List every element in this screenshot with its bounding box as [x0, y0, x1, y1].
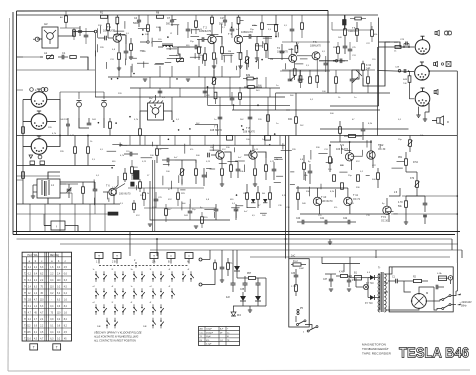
wire bottom mid	[209, 250, 211, 260]
svg-text:MAGNETOFON: MAGNETOFON	[362, 343, 386, 347]
switch contact row1 col4	[122, 274, 124, 276]
ground osc	[31, 195, 35, 197]
upper right box parts	[335, 77, 338, 84]
wire L to T7	[195, 125, 218, 136]
motor M1	[412, 294, 427, 309]
resistor R17	[265, 44, 268, 51]
svg-text:4/2: 4/2	[44, 22, 48, 26]
svg-text:R57: R57	[247, 273, 252, 275]
socket J2 DIN connector	[31, 114, 47, 130]
resistor R1 top left	[101, 15, 108, 18]
wire T2 out	[216, 37, 222, 45]
record box extra parts	[337, 47, 340, 54]
key stem K5	[188, 259, 190, 264]
ground T1e	[117, 67, 121, 69]
resistor R1c	[73, 30, 76, 37]
wire drop x157	[156, 239, 158, 256]
switch contact row1 col3	[114, 274, 116, 276]
resistor R41 top	[295, 117, 298, 124]
wire right bus to switch	[457, 263, 459, 291]
jack plug JP2	[102, 102, 107, 107]
wire fuse	[350, 277, 355, 279]
wire out stage top	[330, 141, 371, 143]
electrolytic C35	[243, 282, 248, 284]
capacitor C33	[294, 274, 299, 276]
wire speaker branch	[425, 103, 429, 112]
junction c2	[428, 70, 430, 72]
svg-text:1M: 1M	[228, 51, 231, 53]
switch contact row1 col2	[103, 274, 105, 276]
wire row y42 right	[282, 41, 330, 43]
capacitor C44	[423, 202, 428, 204]
fuse F2 box	[439, 276, 447, 281]
mains arrows	[457, 294, 461, 296]
T11 wires	[347, 188, 349, 197]
wire rect left drop	[232, 262, 234, 278]
resistor R3	[107, 24, 110, 31]
voltage table header split	[22, 256, 71, 258]
wire rect right	[265, 278, 267, 306]
resistor R53b	[405, 201, 408, 208]
P5 contact	[297, 309, 299, 311]
capacitor C29m dark	[131, 182, 135, 186]
wire P2 out	[305, 325, 312, 329]
resistor R46 out	[303, 163, 306, 170]
resistor R31	[230, 165, 233, 172]
node circle bottom	[199, 258, 202, 261]
resistor R51	[405, 159, 408, 166]
T2 emitter	[213, 43, 215, 52]
svg-text:K 40: K 40	[339, 272, 344, 274]
resistor R44	[339, 127, 342, 134]
transistor T9	[345, 153, 353, 161]
section divider double line right	[288, 136, 290, 259]
wire motor top	[419, 287, 434, 293]
bias trap symbol	[356, 70, 362, 76]
electrolytic C34	[231, 282, 236, 284]
switch contact row2 col7	[152, 291, 154, 293]
capacitor C2c	[84, 34, 89, 36]
svg-text:2xC: 2xC	[291, 255, 296, 258]
icon D right	[40, 161, 45, 165]
wire L4	[158, 46, 163, 48]
TY3 wires	[386, 198, 388, 206]
junction dot	[73, 31, 75, 33]
wire mid long vertical pair	[152, 160, 154, 232]
wire sockets right J1	[47, 100, 60, 111]
wire TY3 to right bus	[391, 213, 457, 215]
wire big speaker	[432, 120, 437, 122]
resistor R13	[221, 47, 224, 54]
rail y97 center	[95, 96, 285, 98]
wire osc rail	[60, 181, 95, 183]
oscillator coil windings	[41, 182, 43, 195]
resistor R12	[198, 47, 201, 54]
svg-text:C41: C41	[320, 218, 325, 220]
svg-text:TONBANDGERÄT: TONBANDGERÄT	[362, 347, 389, 351]
wire x95 node drop	[95, 33, 97, 97]
node circle b2	[199, 283, 202, 286]
T6 collector	[115, 180, 119, 189]
svg-text:4/2: 4/2	[149, 97, 153, 100]
capacitor C8b	[230, 28, 235, 30]
T4 collector R	[295, 46, 298, 53]
icon circle L	[30, 88, 34, 92]
resistor R55	[356, 29, 359, 36]
svg-text:1c: 1c	[93, 269, 95, 271]
table key button left	[30, 344, 38, 350]
wire x233 drop	[233, 105, 235, 110]
trimmer P2 arrow	[177, 59, 184, 62]
electrolytic C16	[66, 123, 70, 125]
wire rect bottom	[233, 305, 266, 307]
wire connector2 feed	[378, 71, 415, 72]
main horizontal rail y135	[17, 135, 458, 137]
svg-text:T: T	[98, 254, 100, 258]
junction m1	[87, 135, 89, 137]
switch contact row1 col1	[95, 274, 97, 276]
svg-text:M: M	[426, 291, 428, 295]
capacitor C13	[78, 30, 82, 32]
zener D4	[231, 312, 236, 316]
output connector X2 DIN	[415, 66, 430, 81]
cap C15a	[158, 90, 163, 92]
resistor R61	[227, 263, 230, 270]
resistor K37	[395, 46, 401, 49]
mains switch upper	[442, 299, 444, 301]
node circle g	[94, 30, 97, 33]
erase head symbol	[47, 33, 54, 40]
ground sp	[423, 118, 427, 120]
capacitor C16c	[230, 97, 235, 99]
P5 dashed box	[296, 304, 307, 316]
capacitor C30 out	[308, 170, 313, 172]
transformer secondary winding	[384, 274, 386, 278]
capacitor C14	[61, 55, 63, 60]
speaker icon small 3	[434, 91, 436, 94]
caps bottom out	[301, 220, 303, 225]
record head symbol	[152, 108, 159, 115]
switch contact row3 col3	[114, 307, 116, 309]
svg-text:2 A: 2 A	[152, 261, 156, 264]
key button K3	[150, 253, 158, 259]
voltage table row lines	[22, 269, 71, 271]
T5 collector cap	[324, 62, 329, 64]
pot P5 mid	[181, 169, 184, 176]
svg-text:C1: C1	[62, 51, 66, 55]
capacitor C28	[403, 69, 405, 73]
record box wire y30	[332, 29, 371, 31]
transistor T1	[113, 34, 121, 42]
svg-text:108NU/70: 108NU/70	[310, 45, 321, 48]
T6 emitter	[113, 195, 115, 204]
T5 base link	[297, 55, 312, 57]
resistor R60	[214, 263, 217, 270]
key stem K2	[116, 259, 118, 264]
socket J1 DIN connector	[31, 92, 47, 108]
switch contact row3 col5	[133, 307, 135, 309]
capacitor C23	[166, 158, 168, 163]
erase head enclosure box	[42, 27, 58, 48]
wire erase section	[37, 38, 42, 40]
oscillator coil taps	[33, 184, 37, 186]
electrolytic C36	[256, 282, 261, 284]
capacitor C25	[343, 45, 348, 47]
switch contact row4 b	[152, 320, 154, 322]
capacitor C47 psu	[435, 285, 437, 290]
T8 emitter	[254, 159, 256, 169]
capacitor C31	[361, 128, 366, 130]
pot P4 trimmer	[409, 140, 412, 147]
wire x66 h	[60, 27, 80, 29]
wire head right	[164, 111, 173, 120]
T9 wires	[349, 142, 351, 153]
svg-text:0,1µF: 0,1µF	[206, 344, 212, 346]
key button K4	[167, 253, 175, 259]
icon D left	[30, 161, 35, 165]
coil L4	[163, 45, 173, 47]
resistor R26	[131, 167, 134, 174]
transistor T6	[109, 188, 116, 195]
svg-text:TY3: TY3	[381, 215, 386, 219]
capacitor C26b	[188, 210, 193, 212]
capacitor C27	[236, 168, 241, 170]
capacitor C17b	[223, 19, 227, 21]
key stem K3	[153, 259, 155, 264]
wire y196 right	[402, 195, 457, 197]
svg-text:CY1: CY1	[228, 263, 233, 265]
resistor R2b	[295, 285, 298, 292]
svg-text:24F: 24F	[143, 326, 147, 328]
svg-text:108 NU/70: 108 NU/70	[210, 129, 223, 132]
svg-text:T: T	[116, 254, 118, 258]
resistor cluster out	[297, 193, 300, 200]
switch contact row1 col9	[171, 274, 173, 276]
wire y70 right	[282, 69, 330, 71]
transistor T10	[313, 197, 321, 205]
ground conn3	[416, 114, 420, 116]
oscillator coil box	[37, 179, 60, 198]
mains switch lower	[442, 308, 444, 310]
svg-text:T 9: T 9	[340, 143, 344, 147]
wire conn3 feed	[410, 95, 415, 99]
capacitor C7	[170, 19, 174, 21]
upper right caps C18 cluster	[288, 78, 293, 80]
junction r1	[333, 60, 335, 62]
switch contact row2 col2	[103, 291, 105, 293]
transistor T5	[312, 52, 320, 60]
T2 collector	[211, 24, 213, 35]
switch contact row1 col5	[133, 274, 135, 276]
icon double circle	[41, 88, 45, 92]
svg-text:~ 220/110V: ~ 220/110V	[460, 301, 473, 304]
bus drop x462	[461, 250, 463, 258]
resistor R30	[201, 217, 204, 224]
wire long mid down	[150, 181, 230, 220]
svg-text:500: 500	[166, 23, 171, 26]
icon square right	[446, 62, 451, 67]
resistors mid cluster	[246, 193, 249, 200]
capacitor C3 base T1	[104, 36, 106, 41]
svg-text:ALL CONTACTS IN REST POSITION: ALL CONTACTS IN REST POSITION	[93, 340, 136, 343]
svg-text:T: T	[153, 254, 155, 258]
svg-text:2.7M: 2.7M	[291, 286, 296, 288]
transistor T12	[367, 151, 375, 159]
socket J3 DIN connector	[31, 139, 47, 155]
node circle r	[335, 60, 337, 62]
svg-text:=: =	[188, 254, 190, 258]
resistor R49	[408, 76, 411, 83]
bottom caps mid	[234, 208, 239, 210]
record head shield box	[148, 103, 164, 120]
junction dots top row	[211, 23, 213, 25]
wire record to connector	[379, 42, 409, 47]
diode KY710 lower	[370, 295, 375, 300]
svg-text:T 8: T 8	[246, 126, 250, 130]
transistor T7	[216, 151, 224, 159]
T7 collector	[219, 145, 221, 151]
transistor T4	[289, 54, 297, 62]
resistor R22	[139, 182, 142, 189]
wire sockets left bus2	[23, 121, 31, 123]
supply rail +U top	[17, 14, 379, 16]
wire out row	[257, 36, 272, 38]
svg-text:1M: 1M	[270, 59, 273, 61]
resistor R23	[156, 149, 159, 156]
fuse B1	[355, 276, 362, 281]
ground rect	[248, 309, 252, 311]
resistor R28	[165, 209, 168, 216]
capacitor C38	[220, 266, 225, 268]
svg-text:C37: C37	[323, 279, 328, 281]
bus wire y110	[286, 109, 380, 111]
low band verticals	[29, 204, 31, 232]
capacitor C12 out	[248, 34, 250, 39]
switch contact row1 col10	[182, 274, 184, 276]
wire 2,6 branch	[389, 188, 400, 196]
record amp box top edge	[276, 92, 390, 94]
svg-text:TESLA B46: TESLA B46	[399, 345, 469, 362]
wire y105 mid	[208, 104, 291, 106]
section divider double line left	[285, 136, 287, 259]
capacitor C17	[87, 122, 92, 124]
wire y263 mid	[322, 263, 360, 265]
voltage table outer frame	[22, 252, 71, 341]
svg-text:106 NU/70: 106 NU/70	[321, 200, 333, 203]
parts table columns	[204, 327, 206, 346]
svg-text:R51: R51	[398, 157, 403, 159]
svg-text:T 3: T 3	[228, 32, 232, 36]
wire osc up	[48, 172, 60, 179]
wire y263 drop	[321, 257, 323, 264]
ground b2	[220, 279, 224, 281]
diode KY710 upper	[370, 275, 375, 280]
wire T4 input chain	[59, 110, 61, 136]
svg-text:4.78: 4.78	[398, 202, 403, 204]
icon double circle right	[445, 31, 449, 35]
svg-text:1c: 1c	[131, 286, 133, 288]
resistor R19b	[301, 23, 304, 30]
page edge shadow bottom	[8, 370, 470, 371]
node circle f2	[147, 41, 149, 43]
T10 wires	[317, 188, 319, 197]
capacitor C25b	[154, 198, 159, 200]
mains transformer core	[380, 272, 382, 312]
resistor R15b	[261, 23, 264, 30]
trimmer C20	[67, 188, 72, 190]
transistor T3	[234, 35, 242, 43]
motor brushes	[415, 297, 424, 306]
wire T6 out	[116, 184, 125, 190]
trimmer P3b	[213, 78, 216, 85]
wire out row214	[300, 213, 389, 215]
capacitor C21	[93, 188, 98, 190]
switch contact row2 col9	[171, 291, 173, 293]
svg-text:T: T	[33, 346, 35, 350]
capacitor C24	[202, 174, 207, 176]
resistor R47 right	[329, 157, 332, 164]
resistor R8 on rail	[157, 15, 164, 18]
vertical drop head rail	[139, 97, 141, 111]
junction conn1	[403, 46, 405, 48]
capacitor C37	[329, 278, 333, 280]
record box rail	[330, 92, 378, 94]
plug circle	[448, 276, 452, 280]
wire conn2 to right bus	[429, 70, 457, 72]
wire T8 out	[257, 152, 266, 158]
T12 wires	[370, 140, 372, 151]
svg-text:R 52: R 52	[413, 162, 419, 164]
resistor F1.2	[293, 263, 301, 266]
wire sockets left bus	[23, 99, 31, 101]
T1 base wire	[108, 37, 113, 39]
svg-text:106NU/70: 106NU/70	[277, 51, 288, 54]
resistor R54	[344, 29, 347, 36]
T3 collector	[238, 24, 240, 35]
T6 base	[103, 191, 109, 193]
capacitor C29	[272, 168, 277, 170]
svg-text:C35: C35	[240, 289, 245, 291]
resistor R63	[371, 30, 374, 37]
wire record row y60	[319, 60, 345, 62]
switch contact row2 col4	[122, 291, 124, 293]
resistor R9b	[195, 21, 198, 28]
resistor R18 v	[275, 25, 278, 32]
T7 emitter	[221, 159, 223, 169]
capacitor C9	[194, 45, 196, 50]
capacitor C6b	[186, 28, 191, 30]
socket area wires	[59, 92, 61, 100]
capacitor P6	[347, 279, 351, 281]
T4 emitter parts	[294, 62, 296, 68]
resistor R14	[82, 187, 85, 194]
T8 collector	[252, 145, 254, 151]
key button K2	[113, 253, 121, 259]
resistor R57	[249, 277, 256, 280]
key button K5	[185, 253, 193, 259]
wire right col	[406, 171, 417, 173]
T2 base parts	[201, 37, 203, 42]
switch lever s2	[309, 327, 316, 331]
bus wire y239	[17, 238, 453, 240]
svg-text:1M: 1M	[210, 147, 213, 149]
switch contact row1 col11	[190, 274, 192, 276]
wire P2	[178, 47, 180, 59]
switch contact row3 col6	[141, 307, 143, 309]
transistor T2	[208, 35, 216, 43]
wire out row188	[296, 187, 348, 189]
resistor R26v	[239, 93, 242, 100]
